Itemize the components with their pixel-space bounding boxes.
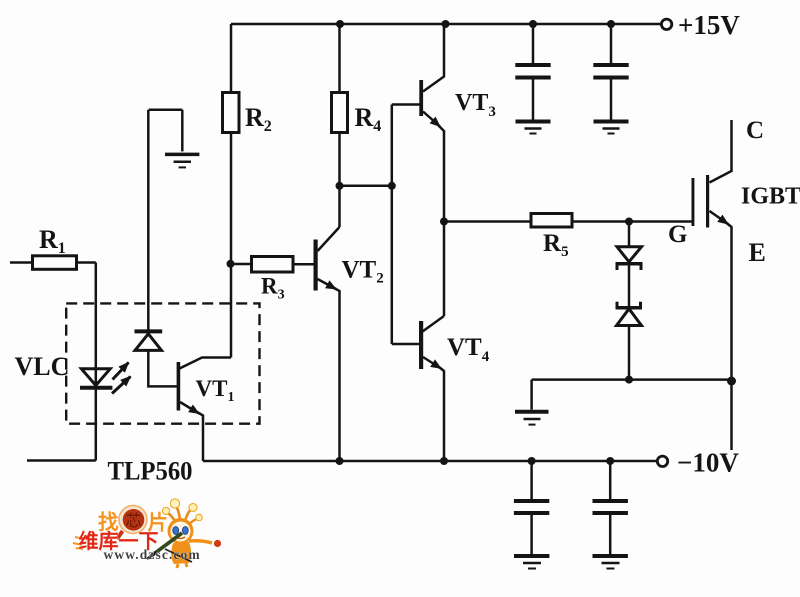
svg-text:IGBT: IGBT	[741, 184, 800, 210]
svg-text:C: C	[746, 117, 764, 144]
svg-text:TLP560: TLP560	[108, 457, 193, 486]
svg-text:E: E	[749, 238, 766, 267]
svg-text:www.dzsc.com: www.dzsc.com	[104, 547, 201, 562]
svg-text:R3: R3	[261, 274, 285, 303]
svg-text:R4: R4	[355, 103, 382, 135]
svg-text:VT4: VT4	[447, 334, 490, 365]
svg-text:R1: R1	[39, 225, 66, 257]
svg-text:VLC: VLC	[15, 352, 70, 381]
svg-text:−10V: −10V	[677, 448, 739, 478]
svg-text:芯: 芯	[126, 511, 142, 530]
svg-text:R2: R2	[245, 103, 272, 135]
svg-text:+15V: +15V	[678, 10, 740, 40]
svg-text:R5: R5	[543, 230, 569, 260]
svg-text:VT2: VT2	[342, 257, 384, 287]
svg-text:VT1: VT1	[196, 376, 235, 405]
svg-text:VT3: VT3	[455, 90, 496, 120]
svg-text:G: G	[668, 221, 687, 248]
